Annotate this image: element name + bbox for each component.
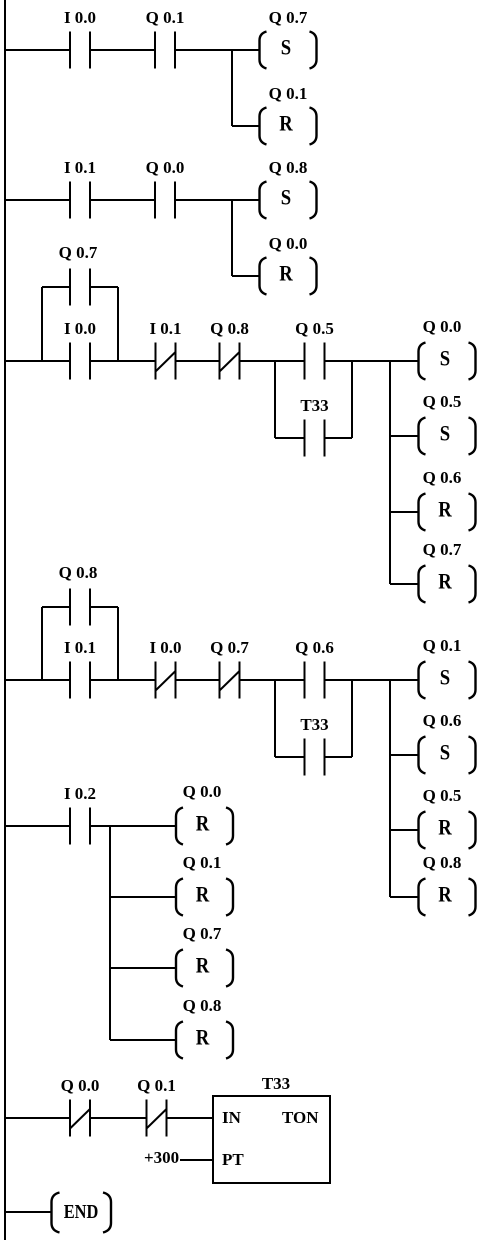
- wire rung4 T33 branch: riser to contact: [275, 756, 305, 758]
- coil Q0.8 reset (R) rung4: [419, 853, 476, 916]
- wire rung4: I0.0 to Q0.7: [176, 679, 220, 681]
- svg-text:Q 0.8: Q 0.8: [183, 996, 222, 1015]
- svg-text:Q 0.5: Q 0.5: [423, 392, 462, 411]
- wire rung2: Q0.0 to coil Q0.8, through branch node: [175, 199, 260, 201]
- wire rung1: Q0.1 to coil Q0.7, through branch node: [175, 49, 260, 51]
- contact Q0.5 (NO) rung3: [295, 319, 334, 380]
- wire rung4: branch to coil Q0.6: [390, 754, 419, 756]
- svg-text:Q 0.1: Q 0.1: [146, 8, 185, 27]
- END coil: [52, 1193, 112, 1233]
- contact Q0.1 (NO) rung1: [146, 8, 185, 69]
- coil Q0.5 reset (R) rung4: [419, 786, 476, 849]
- wire rung4: rail to contact I0.1: [5, 679, 70, 681]
- contact Q0.6 (NO) rung4: [295, 638, 334, 699]
- wire rung3: branch to coil Q0.6: [390, 511, 419, 513]
- wire rung3: Q0.5 to coil branch, through T33 node: [325, 360, 420, 362]
- coil Q0.0 reset (R) rung5: [176, 782, 233, 845]
- wire: +300 to PT pin: [180, 1159, 213, 1161]
- svg-text:Q 0.1: Q 0.1: [269, 84, 308, 103]
- svg-text:R: R: [438, 498, 452, 522]
- wire rung3: I0.1 to Q0.8: [176, 360, 220, 362]
- svg-text:Q 0.6: Q 0.6: [295, 638, 334, 657]
- svg-text:Q 0.0: Q 0.0: [269, 234, 308, 253]
- wire rung5 branch riser: [109, 826, 111, 1040]
- contact Q0.0 (NO) rung2: [146, 158, 185, 219]
- wire rung4: branch to coil Q0.8: [390, 896, 419, 898]
- contact I0.1 (NC) rung3: [149, 319, 181, 380]
- wire rung6: Q0.1 to timer IN pin: [167, 1117, 214, 1119]
- svg-text:+300: +300: [144, 1148, 179, 1167]
- svg-text:R: R: [196, 883, 210, 907]
- svg-text:R: R: [196, 812, 210, 836]
- svg-text:END: END: [64, 1201, 99, 1223]
- wire rung4: branch to coil Q0.5: [390, 829, 419, 831]
- contact I0.0 (NC) rung4: [149, 638, 181, 699]
- svg-text:Q 0.1: Q 0.1: [423, 636, 462, 655]
- coil Q0.7 reset (R) rung5: [176, 924, 233, 987]
- svg-text:I 0.1: I 0.1: [64, 158, 96, 177]
- wire rung4 T33 branch: contact to right riser: [325, 756, 353, 758]
- wire rung6: Q0.0 to Q0.1: [90, 1117, 147, 1119]
- svg-text:R: R: [438, 883, 452, 907]
- wire rung3: branch to coil Q0.5: [390, 435, 419, 437]
- svg-text:IN: IN: [222, 1108, 242, 1127]
- coil Q0.8 set (S): [260, 158, 317, 219]
- wire rung6: rail to contact Q0.0: [5, 1117, 70, 1119]
- wire rung5: I0.2 to coil Q0.0, through branch node: [90, 825, 176, 827]
- wire rung4: I0.1 to I0.0: [90, 679, 156, 681]
- svg-text:TON: TON: [282, 1108, 319, 1127]
- wire rung5: branch to coil Q0.7: [110, 967, 176, 969]
- svg-text:R: R: [196, 1026, 210, 1050]
- svg-text:Q 0.8: Q 0.8: [210, 319, 249, 338]
- svg-text:Q 0.7: Q 0.7: [59, 243, 98, 262]
- wire rung3 parallel branch right riser: [117, 287, 119, 361]
- wire rung4: Q0.6 to coil branch, through T33 node: [325, 679, 420, 681]
- wire rung3: rail to contact I0.0: [5, 360, 70, 362]
- svg-text:Q 0.0: Q 0.0: [423, 317, 462, 336]
- wire rung1: branch to coil Q0.1: [232, 125, 260, 127]
- svg-text:Q 0.7: Q 0.7: [210, 638, 249, 657]
- svg-text:Q 0.7: Q 0.7: [183, 924, 222, 943]
- svg-text:I 0.1: I 0.1: [64, 638, 96, 657]
- svg-text:S: S: [281, 186, 291, 210]
- svg-text:Q 0.7: Q 0.7: [423, 540, 462, 559]
- contact Q0.8 (NO) rung4 branch: [59, 563, 98, 626]
- wire rung3: branch to coil Q0.7: [390, 583, 419, 585]
- coil Q0.8 reset (R) rung5: [176, 996, 233, 1059]
- svg-text:Q 0.1: Q 0.1: [137, 1076, 176, 1095]
- wire rung3 branch: riser to contact Q0.7: [42, 286, 70, 288]
- wire rung4 branch: riser to contact Q0.8: [42, 606, 70, 608]
- wire rung2 branch: down to reset coil: [231, 200, 233, 276]
- svg-text:R: R: [196, 954, 210, 978]
- left power rail: [4, 0, 6, 1240]
- coil Q0.7 reset (R) rung3: [419, 540, 476, 603]
- svg-text:R: R: [438, 816, 452, 840]
- svg-text:T33: T33: [300, 396, 328, 415]
- svg-text:Q 0.6: Q 0.6: [423, 468, 462, 487]
- svg-text:I 0.0: I 0.0: [64, 319, 96, 338]
- wire end rung: rail to END coil: [5, 1211, 52, 1213]
- svg-text:R: R: [279, 262, 293, 286]
- contact T33 (NO) rung3 branch: [300, 396, 328, 457]
- svg-text:Q 0.8: Q 0.8: [59, 563, 98, 582]
- svg-text:I 0.0: I 0.0: [149, 638, 181, 657]
- wire rung3 T33 branch right riser: [351, 361, 353, 438]
- svg-text:Q 0.0: Q 0.0: [61, 1076, 100, 1095]
- wire rung4 parallel branch left riser: [41, 607, 43, 680]
- contact I0.1 (NO) rung2: [64, 158, 96, 219]
- contact Q0.0 (NC) rung6: [61, 1076, 100, 1137]
- svg-text:Q 0.0: Q 0.0: [183, 782, 222, 801]
- timer T33 TON block: [213, 1074, 330, 1183]
- contact Q0.8 (NC) rung3: [210, 319, 249, 380]
- coil Q0.0 set (S) rung3: [419, 317, 476, 380]
- svg-text:Q 0.8: Q 0.8: [423, 853, 462, 872]
- svg-text:Q 0.5: Q 0.5: [423, 786, 462, 805]
- svg-text:I 0.2: I 0.2: [64, 784, 96, 803]
- svg-text:T33: T33: [262, 1074, 290, 1093]
- svg-text:S: S: [440, 666, 450, 690]
- wire rung4: Q0.7 to Q0.6, through T33 branch node: [240, 679, 305, 681]
- svg-text:S: S: [440, 422, 450, 446]
- coil Q0.6 set (S) rung4: [419, 711, 476, 774]
- wire rung5: branch to coil Q0.1: [110, 896, 176, 898]
- contact Q0.1 (NC) rung6: [137, 1076, 176, 1137]
- svg-text:I 0.1: I 0.1: [149, 319, 181, 338]
- svg-text:PT: PT: [222, 1150, 244, 1169]
- coil Q0.6 reset (R) rung3: [419, 468, 476, 531]
- coil Q0.1 reset (R) rung5: [176, 853, 233, 916]
- wire rung4 T33 branch right riser: [351, 680, 353, 757]
- wire rung3 T33 branch left riser: [274, 361, 276, 438]
- wire rung5: rail to contact I0.2: [5, 825, 70, 827]
- svg-text:Q 0.6: Q 0.6: [423, 711, 462, 730]
- contact Q0.7 (NC) rung4: [210, 638, 249, 699]
- svg-text:R: R: [279, 112, 293, 136]
- wire rung3 T33 branch: riser to contact: [275, 437, 305, 439]
- coil Q0.1 set (S) rung4: [419, 636, 476, 699]
- svg-text:S: S: [440, 741, 450, 765]
- wire rung3 parallel branch left riser: [41, 287, 43, 361]
- wire rung2: rail to contact I0.1: [5, 199, 70, 201]
- svg-text:Q 0.8: Q 0.8: [269, 158, 308, 177]
- wire rung4 parallel branch right riser: [117, 607, 119, 680]
- coil Q0.5 set (S) rung3: [419, 392, 476, 455]
- wire rung1 branch: down to reset coil: [231, 50, 233, 126]
- svg-text:T33: T33: [300, 715, 328, 734]
- contact I0.0 (NO) rung3: [64, 319, 96, 380]
- coil Q0.7 set (S): [260, 8, 317, 69]
- svg-text:R: R: [438, 570, 452, 594]
- contact I0.1 (NO) rung4: [64, 638, 96, 699]
- svg-text:I 0.0: I 0.0: [64, 8, 96, 27]
- svg-text:Q 0.1: Q 0.1: [183, 853, 222, 872]
- svg-text:Q 0.0: Q 0.0: [146, 158, 185, 177]
- wire rung4 branch: contact Q0.8 to right riser: [90, 606, 118, 608]
- wire rung3 output branch riser: [389, 361, 391, 584]
- wire rung2: I0.1 to Q0.0: [90, 199, 155, 201]
- wire rung4 output branch riser: [389, 680, 391, 897]
- wire rung1: rail to contact I0.0: [5, 49, 70, 51]
- svg-text:S: S: [281, 36, 291, 60]
- wire rung3 T33 branch: contact to right riser: [325, 437, 353, 439]
- svg-text:S: S: [440, 347, 450, 371]
- contact I0.2 (NO) rung5: [64, 784, 96, 845]
- wire rung2: branch to coil Q0.0: [232, 275, 260, 277]
- contact Q0.7 (NO) rung3 branch: [59, 243, 98, 306]
- coil Q0.0 reset (R): [260, 234, 317, 295]
- wire rung5: branch to coil Q0.8: [110, 1039, 176, 1041]
- wire rung3 branch: contact Q0.7 to right riser: [90, 286, 118, 288]
- contact T33 (NO) rung4 branch: [300, 715, 328, 776]
- svg-text:Q 0.7: Q 0.7: [269, 8, 308, 27]
- contact I0.0 (NO) rung1: [64, 8, 96, 69]
- svg-text:Q 0.5: Q 0.5: [295, 319, 334, 338]
- wire rung3: I0.0 to I0.1: [90, 360, 156, 362]
- coil Q0.1 reset (R): [260, 84, 317, 145]
- wire rung3: Q0.8 to Q0.5, through T33 branch node: [240, 360, 305, 362]
- wire rung1: I0.0 to Q0.1: [90, 49, 155, 51]
- wire rung4 T33 branch left riser: [274, 680, 276, 757]
